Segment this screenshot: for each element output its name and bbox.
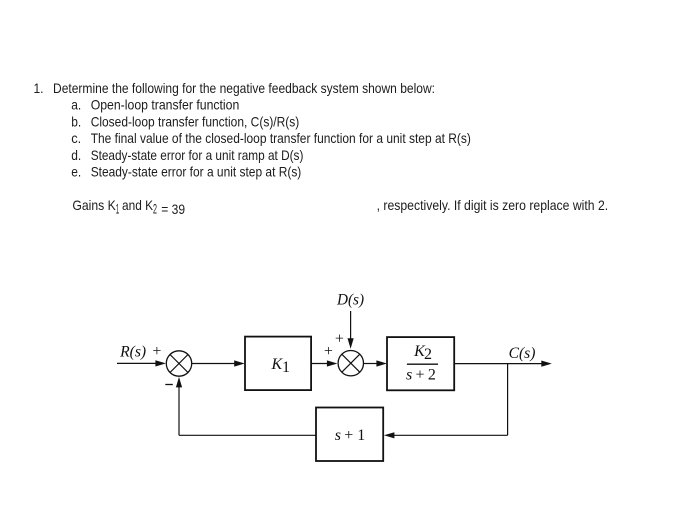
svg-text:, respectively. If digit is ze: , respectively. If digit is zero replace… [377,197,609,213]
svg-text:+: + [416,367,425,384]
wire R(s) input [117,362,157,364]
summing junction S2 [338,351,363,376]
svg-text:Open-loop transfer function: Open-loop transfer function [91,97,240,113]
svg-text:+: + [324,343,333,360]
svg-text:Steady-state error for a unit: Steady-state error for a unit step at R(… [91,164,302,180]
arrowhead into K2 block [376,360,387,366]
wire D(s) down [350,311,352,339]
arrowhead feedback into S1 [176,377,182,388]
wire S1 to K1 [192,363,235,365]
arrowhead into S2 [327,360,338,366]
svg-text:e.: e. [71,164,81,180]
svg-text:The final value of the closed-: The final value of the closed-loop trans… [91,130,471,146]
svg-text:R(s): R(s) [119,343,146,360]
wire feedback up to S1 [178,387,180,435]
svg-text:s: s [335,427,341,444]
arrowhead into summer S1 [155,360,166,366]
wire K2 to output [454,363,542,365]
wire K1 to S2 [311,363,328,365]
svg-text:d.: d. [71,147,81,163]
wire s+1 back left [179,434,316,436]
svg-text:a.: a. [71,97,81,113]
branch node at output [507,364,509,436]
arrowhead into K1 [234,360,245,366]
svg-text:b.: b. [71,113,81,129]
block K2/(s+2) [387,337,454,390]
svg-text:Steady-state error for a unit: Steady-state error for a unit ramp at D(… [91,147,304,163]
svg-text:2: 2 [428,367,436,384]
svg-text:Closed-loop transfer function,: Closed-loop transfer function, C(s)/R(s) [91,113,300,129]
svg-text:Gains K: Gains K [72,197,116,213]
svg-text:2: 2 [424,346,432,363]
svg-text:1: 1 [116,201,120,217]
block K1 [245,337,311,391]
svg-text:s: s [406,367,412,384]
minus sign at summer S1 [165,384,173,386]
wire S2 to K2 block [364,363,378,365]
svg-text:1: 1 [357,427,365,444]
svg-text:1.: 1. [34,80,44,96]
svg-text:c.: c. [71,130,81,146]
arrowhead into s+1 block [384,432,395,438]
arrowhead D(s) into S2 [348,338,354,349]
wire branch to s+1 block [394,434,508,436]
svg-text:C(s): C(s) [509,345,536,362]
svg-text:= 39: = 39 [161,201,185,217]
svg-text:1: 1 [282,359,290,376]
summing junction S1 [166,351,191,376]
output arrowhead [541,361,552,367]
svg-text:+: + [344,427,353,444]
svg-text:2: 2 [153,201,157,217]
svg-text:D(s): D(s) [336,291,364,308]
svg-text:Determine the following for th: Determine the following for the negative… [53,80,435,96]
block s+1 feedback [316,408,383,462]
svg-text:and K: and K [122,197,154,213]
svg-text:+: + [335,331,344,348]
svg-text:+: + [152,343,161,360]
